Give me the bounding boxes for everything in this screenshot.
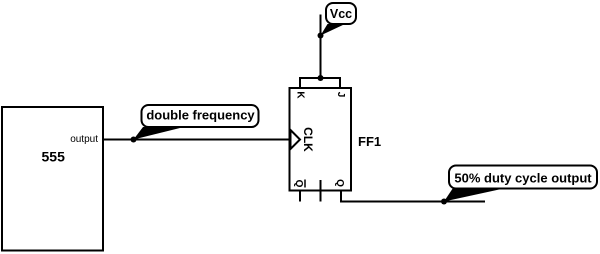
pin Qbar stub <box>299 191 301 202</box>
wire Q output <box>340 201 485 203</box>
svg-text:555: 555 <box>42 149 66 165</box>
svg-text:CLK: CLK <box>301 127 315 152</box>
callout 50% duty cycle output <box>444 166 597 202</box>
junction Vcc tie <box>318 75 324 81</box>
svg-text:K: K <box>295 91 306 99</box>
pin K stub <box>299 78 301 88</box>
svg-text:50% duty cycle output: 50% duty cycle output <box>454 171 592 186</box>
IC U1 555 timer box <box>2 107 103 251</box>
node Vcc anchor dot <box>318 33 324 39</box>
node output anchor dot <box>441 199 447 205</box>
callout Vcc <box>321 3 357 36</box>
svg-text:output: output <box>70 134 98 145</box>
svg-text:FF1: FF1 <box>358 134 381 149</box>
svg-text:Vcc: Vcc <box>330 7 352 21</box>
wire Vcc drop <box>320 15 322 80</box>
callout double frequency <box>134 105 259 140</box>
wire 555 output to FF1 CLK <box>103 139 289 141</box>
pin Q stub <box>340 191 342 203</box>
wire K-J tie <box>299 77 341 79</box>
pin middle stub <box>320 180 322 202</box>
clock edge triangle <box>291 130 301 149</box>
node double-frequency anchor dot <box>131 137 137 143</box>
pin label Qbar <box>293 180 305 188</box>
pin J stub <box>339 78 341 88</box>
svg-text:double frequency: double frequency <box>146 108 255 123</box>
svg-text:Q: Q <box>334 179 345 187</box>
svg-text:Q: Q <box>293 180 304 188</box>
svg-text:J: J <box>335 92 346 98</box>
flip-flop FF1 box <box>290 88 352 191</box>
